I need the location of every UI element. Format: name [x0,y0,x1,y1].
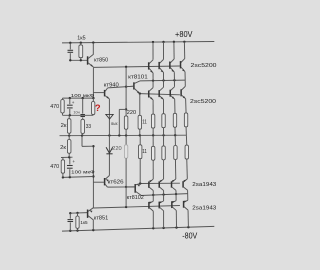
resistor unknown x93 [92,98,94,101]
resistor 11 top [138,115,141,129]
wire kt8102 base [126,186,135,188]
svg-text:+: + [72,159,75,164]
resistor emitter bottom #4 [185,145,188,159]
wire kt8101 base column [125,67,127,110]
wire rail D bottom [141,194,188,196]
wire rail D top [140,79,186,82]
wire node C top [63,114,94,116]
transistor 2sa1943 row4 #4 [187,194,189,201]
wire row2 emitter #1 [152,100,154,114]
wire kt626 collector to kt8102 base [107,186,134,188]
transistor 2sc5200 row2 #1 [152,81,154,88]
wire rail row4 bases [93,206,179,209]
wire kt8101 emitter column [139,94,141,116]
svg-text:470: 470 [50,164,59,170]
wire row4 collector #1 [152,211,154,228]
resistor emitter top #4 [184,113,187,127]
svg-text:220: 220 [112,146,122,152]
transistor kt850 [87,56,89,64]
transistor 2sc5200 row1 #3 [173,42,175,59]
resistor 2k bottom [68,136,70,140]
wire row3 collector #2 [163,190,165,194]
wire row3 collector #3 [175,190,177,194]
wire row4 collector #2 [163,211,165,228]
wire node C bottom [61,156,73,158]
wire node B bottom [63,176,94,179]
resistor 470 bottom [62,158,64,160]
transistor 2sa1943 row4 #3 [175,194,177,201]
wire row1 emitter #1 [152,73,154,81]
wire kt8101 base [126,85,134,88]
wire rail row1 bases [93,66,179,67]
wire row2 emitter #2 [163,100,165,114]
junction dots col93 bottom [92,175,94,177]
svg-text:2к: 2к [61,123,68,129]
wire row2 emitter #3 [174,99,176,113]
svg-text:1к5: 1к5 [77,35,86,41]
wire +80V rail [62,42,214,43]
capacitor C1 top [69,43,71,50]
transistor 2sa1943 row4 #2 [163,195,165,201]
wire rail row2 bases [140,94,180,95]
transistor kt851 [87,210,89,218]
wire row4 collector #4 [187,210,189,227]
wire -80V rail [62,226,214,231]
svg-text:2sa1943: 2sa1943 [192,182,217,188]
wire node B top [63,97,94,99]
resistor 1k5 bottom [77,213,79,216]
capacitor 100uF top [69,98,71,104]
resistor emitter top #2 [162,114,165,128]
resistor 11 bottom [139,145,142,159]
output tap triangle [106,114,113,119]
resistor emitter bottom #3 [174,146,177,160]
transistor 2sc5200 row1 #4 [183,42,185,59]
wire kt626 emitter up to output rail [108,136,110,176]
svg-text:2sc5200: 2sc5200 [190,99,217,105]
transistor 2sa1943 row3 #4 [183,179,187,182]
wire kt626 base [93,181,104,183]
wire row1 emitter #2 [163,73,165,81]
svg-text:2sa1943: 2sa1943 [192,205,217,211]
resistor 1k5 top [80,43,82,45]
svg-text:11: 11 [142,149,147,155]
wire kt850 base line [70,59,87,61]
svg-text:кт850: кт850 [94,57,108,63]
transistor 2sc5200 row1 #2 [163,42,165,59]
wire row1 emitter #3 [173,72,175,80]
wire kt8102 emitter column [139,159,141,184]
wire row3 collector #4 [187,190,189,193]
transistor 2sc5200 row2 #3 [173,80,175,87]
wire kt8102 base column [125,135,127,144]
svg-text:11: 11 [142,119,147,125]
transistor 2sa1943 row3 #3 [172,179,176,182]
svg-text:кт8102: кт8102 [127,195,144,201]
transistor 2sa1943 row3 #1 [149,179,153,182]
resistor 220 top [125,109,127,116]
svg-text:кт8101: кт8101 [128,74,148,80]
wire kt940 base [93,92,104,94]
resistor 220 bottom [124,145,127,159]
wire kt851 emitter column up [92,146,94,208]
svg-text:кт626: кт626 [108,180,124,186]
svg-text:1к5: 1к5 [80,220,88,225]
capacitor 100uF bottom [69,157,71,164]
svg-text:+80V: +80V [175,29,193,39]
transistor 2sa1943 row3 #2 [160,179,164,182]
wire jumper Z [81,136,83,147]
transistor 2sc5200 row2 #4 [184,80,186,86]
capacitor C1 bottom [69,213,71,219]
transistor kt8102 [134,184,136,193]
svg-text:100 мкФ: 100 мкФ [71,170,95,176]
resistor 2k top [68,115,70,118]
wire kt850 emitter column down [92,67,94,98]
wire kt940 emitter down to output rail [108,99,110,136]
wire kt851 base line [70,212,87,215]
svg-text:вых: вых [111,122,118,127]
transistor 2sc5200 row1 #1 [152,42,154,60]
svg-text:100 мкФ: 100 мкФ [71,93,95,99]
output tap arrow bottom [106,147,113,153]
svg-text:33: 33 [86,124,92,130]
transistor 2sa1943 row4 #1 [152,195,154,201]
wire output rail [60,134,187,137]
svg-text:470: 470 [50,104,59,110]
wire row4 collector #3 [175,210,177,227]
wire row2 emitter #4 [185,99,187,113]
wire row1 emitter #4 [184,72,186,80]
svg-text:2к: 2к [60,145,67,151]
wire rail row3 bases [140,182,180,184]
resistor emitter top #3 [173,113,176,127]
resistor 33 [81,119,85,133]
svg-text:?: ? [95,102,101,113]
capacitor 10n [82,98,84,114]
transistor kt626 [104,178,106,185]
resistor emitter bottom #1 [151,146,154,160]
wire kt940 collector to kt8101 base [108,86,134,88]
svg-text:+: + [72,100,75,105]
wire row3 collector #1 [152,191,154,195]
svg-text:-80V: -80V [182,232,197,241]
svg-text:220: 220 [127,110,136,116]
resistor emitter top #1 [151,114,154,128]
svg-text:2sc5200: 2sc5200 [191,63,218,69]
resistor 470 top [62,98,64,99]
transistor kt940 [104,90,106,97]
transistor 2sc5200 row2 #2 [163,80,165,87]
svg-text:кт851: кт851 [94,216,109,222]
transistor kt8101 [133,82,135,89]
resistor emitter bottom #2 [162,146,165,160]
svg-text:10н: 10н [73,110,79,114]
wire output tap loop [119,108,126,110]
